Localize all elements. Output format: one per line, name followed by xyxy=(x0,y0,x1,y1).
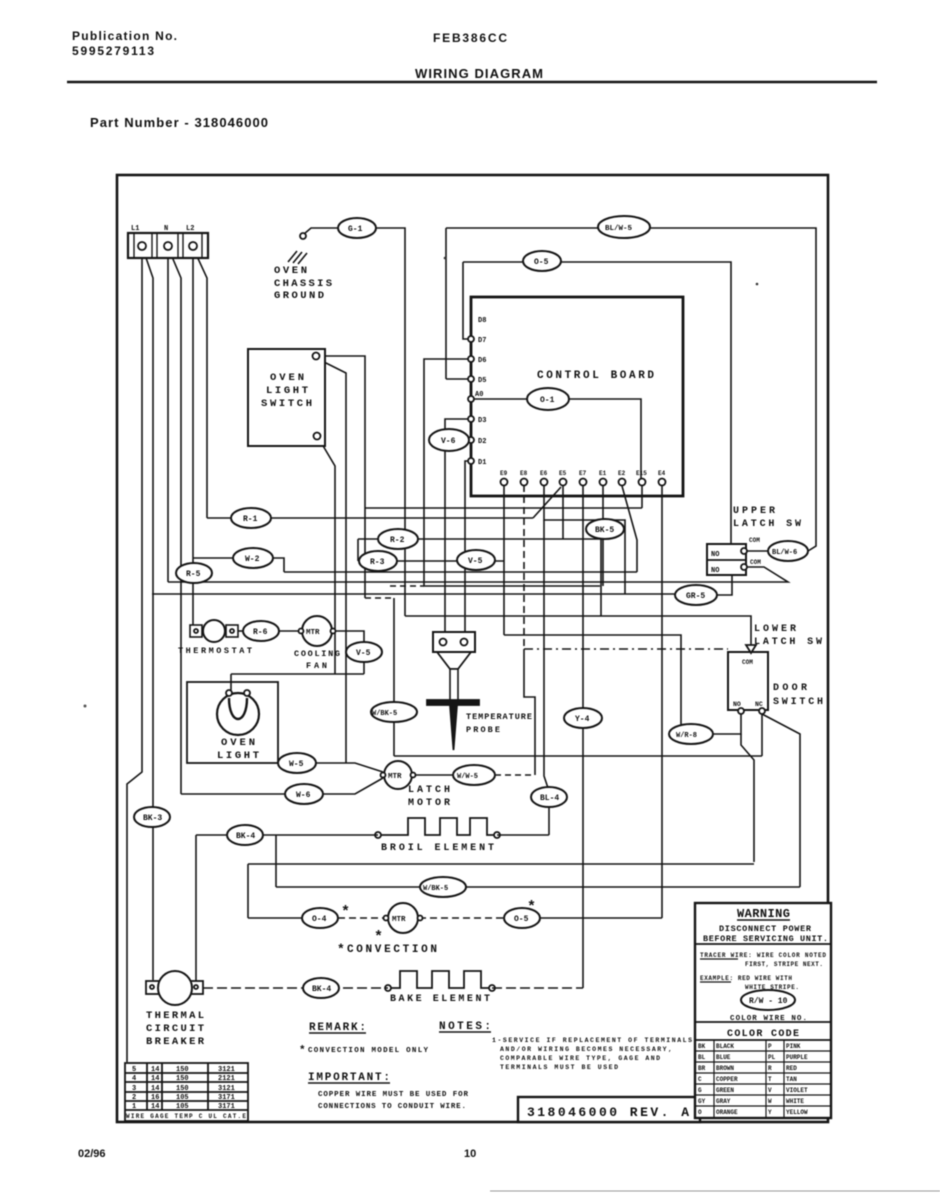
scan speck xyxy=(756,283,759,286)
scan speck xyxy=(84,705,87,708)
wire terminal E4 long vertical to convection O-5 line xyxy=(661,485,663,918)
svg-text:LIGHT: LIGHT xyxy=(266,385,308,397)
svg-text:COM: COM xyxy=(750,559,761,566)
svg-text:DOOR: DOOR xyxy=(773,683,807,694)
wire GR-5 line y=594 xyxy=(152,593,675,595)
svg-text:LATCH: LATCH xyxy=(408,785,450,796)
wire convection line y=918 xyxy=(248,917,302,919)
wire L2b from terminal L2 down to R-1 line xyxy=(195,252,207,518)
wire gauge table text xyxy=(126,1066,246,1120)
connector BL/W-5 xyxy=(598,216,650,238)
svg-text:BL/W-5: BL/W-5 xyxy=(605,225,633,233)
svg-text:E1: E1 xyxy=(599,470,607,477)
svg-text:D1: D1 xyxy=(478,459,486,467)
wire R-3 / V-5 line y=561 xyxy=(358,560,504,562)
svg-text:Publication No.: Publication No. xyxy=(72,29,177,43)
svg-text:NO: NO xyxy=(711,567,719,575)
connector G-1 xyxy=(338,218,376,238)
warning box xyxy=(695,903,831,1118)
svg-text:3: 3 xyxy=(132,1085,136,1093)
svg-text:2121: 2121 xyxy=(218,1075,235,1083)
wire W/R-8 line from x=446 drop to door NO xyxy=(504,635,741,734)
svg-text:BAKE ELEMENT: BAKE ELEMENT xyxy=(390,994,490,1005)
svg-text:G-1: G-1 xyxy=(348,225,363,234)
ground terminal and symbol xyxy=(300,233,306,239)
connector GR-5 xyxy=(675,585,717,605)
wire y=582 long line to upper latch COM2 xyxy=(168,567,788,582)
connector BL/W-6 xyxy=(768,541,808,561)
wire upper latch COM1 to BL/W-6 xyxy=(747,550,769,552)
wire O-5 top line y=262 xyxy=(463,261,523,263)
wire oven light switch top diagonal to x=346 drop xyxy=(318,359,346,763)
svg-text:E6: E6 xyxy=(540,470,548,477)
svg-text:150: 150 xyxy=(176,1066,189,1074)
svg-text:BLACK: BLACK xyxy=(716,1043,734,1050)
svg-text:COM: COM xyxy=(749,537,760,544)
wire y=616 line to door switch COM xyxy=(405,616,751,645)
wire control board D6 to vertical x=424 xyxy=(424,359,600,586)
wire terminal E6 down then right to GR line xyxy=(544,485,625,594)
wire bake element line y=988 xyxy=(203,987,388,989)
wire Nb from terminal N down to W-6 line xyxy=(170,252,181,794)
svg-text:*: * xyxy=(299,1045,306,1057)
wire terminal E5 down to R-2 line and diagonal to R-1 line xyxy=(562,485,564,539)
control board bottom terminals xyxy=(501,479,508,486)
svg-text:R-3: R-3 xyxy=(370,558,385,567)
svg-text:O: O xyxy=(698,1109,702,1116)
wire control board D1 to temperature probe right xyxy=(465,461,468,632)
latch motor xyxy=(384,761,412,789)
wire R-2 line y=539 xyxy=(358,539,601,616)
svg-text:WIRE GAGE TEMP C UL CAT.E: WIRE GAGE TEMP C UL CAT.E xyxy=(126,1113,246,1120)
svg-text:WHITE: WHITE xyxy=(786,1098,804,1105)
svg-text:V-5: V-5 xyxy=(356,649,371,658)
svg-text:COPPER: COPPER xyxy=(716,1076,738,1083)
svg-text:P: P xyxy=(768,1043,772,1050)
oven light switch box xyxy=(248,349,325,446)
svg-text:WARNING: WARNING xyxy=(737,907,790,921)
svg-text:GREEN: GREEN xyxy=(716,1087,734,1094)
svg-text:TEMPERATURE: TEMPERATURE xyxy=(466,712,532,722)
svg-text:105: 105 xyxy=(176,1103,189,1111)
svg-text:1-SERVICE IF REPLACEMENT OF TE: 1-SERVICE IF REPLACEMENT OF TERMINALS xyxy=(492,1037,692,1044)
svg-text:FAN: FAN xyxy=(306,661,327,671)
connector O-1 xyxy=(527,388,569,410)
svg-text:E8: E8 xyxy=(520,470,528,477)
wire y=756 line to BL-4 xyxy=(394,755,762,757)
wire terminal E2 diagonal then down to y=572 line xyxy=(622,486,637,572)
svg-text:BL/W-6: BL/W-6 xyxy=(772,549,797,557)
svg-text:C: C xyxy=(698,1076,702,1083)
svg-text:PURPLE: PURPLE xyxy=(786,1054,808,1061)
upper latch switch box xyxy=(707,544,746,575)
wire W-2 line y=558 xyxy=(193,558,284,572)
svg-text:BROIL ELEMENT: BROIL ELEMENT xyxy=(381,843,494,854)
connector R-2 xyxy=(378,529,418,549)
wire E8 tail down to latch motor right xyxy=(524,649,535,775)
svg-text:V: V xyxy=(768,1087,772,1094)
svg-text:NO: NO xyxy=(733,701,741,708)
wire terminal E7 (Y-4) long vertical to bake line xyxy=(582,485,584,988)
svg-text:E5: E5 xyxy=(559,470,567,477)
control board left terminals xyxy=(468,336,474,342)
svg-text:BK-3: BK-3 xyxy=(143,814,162,823)
wire terminal E9 down to y=616 line xyxy=(503,485,505,635)
scan speck xyxy=(444,257,447,260)
svg-text:L1: L1 xyxy=(131,225,139,233)
svg-text:*: * xyxy=(337,942,345,957)
svg-text:MOTOR: MOTOR xyxy=(408,798,450,809)
svg-text:ORANGE: ORANGE xyxy=(716,1109,738,1116)
svg-text:V-6: V-6 xyxy=(441,437,456,446)
svg-text:14: 14 xyxy=(151,1085,159,1093)
wire BL/W-5 left drop to control board D5 xyxy=(445,228,447,379)
wire W-5 line y=763 from oven light box to latch motor xyxy=(278,763,383,772)
wire control board D3 to V-6 xyxy=(445,419,468,430)
svg-text:THERMOSTAT: THERMOSTAT xyxy=(178,646,252,656)
control board box xyxy=(471,297,683,496)
svg-text:CONTROL BOARD: CONTROL BOARD xyxy=(537,370,654,382)
svg-text:BR: BR xyxy=(698,1065,706,1072)
svg-text:COOLING: COOLING xyxy=(294,649,340,659)
svg-text:BK: BK xyxy=(698,1043,706,1050)
wire O-5 left drop to control board D7 xyxy=(463,262,468,339)
svg-text:NC: NC xyxy=(755,701,763,708)
connector W/BK-5 upper xyxy=(371,702,417,722)
svg-text:MTR: MTR xyxy=(392,916,406,924)
svg-text:V-5: V-5 xyxy=(468,557,483,566)
svg-text:MTR: MTR xyxy=(306,629,320,637)
connector V-6 xyxy=(429,429,469,451)
wire broil element line y=835 xyxy=(196,834,378,836)
svg-text:W/R-8: W/R-8 xyxy=(676,732,697,740)
oven light box xyxy=(187,682,278,763)
svg-text:Part Number - 318046000: Part Number - 318046000 xyxy=(90,115,268,130)
connector W-5 xyxy=(278,753,316,773)
svg-text:CHASSIS: CHASSIS xyxy=(274,278,332,290)
convection motor xyxy=(388,903,418,933)
connector O-4 xyxy=(302,908,338,928)
svg-text:THERMAL: THERMAL xyxy=(146,1010,204,1022)
svg-text:W/BK-5: W/BK-5 xyxy=(372,710,397,718)
svg-text:TAN: TAN xyxy=(786,1076,797,1083)
wire y=508 line from light switch drop to E15 xyxy=(365,507,642,509)
svg-text:MTR: MTR xyxy=(388,773,402,781)
connector BL-4 xyxy=(531,787,567,807)
connector W/R-8 xyxy=(669,724,713,744)
svg-text:GR-5: GR-5 xyxy=(686,592,705,601)
svg-text:D5: D5 xyxy=(478,377,486,385)
svg-text:14: 14 xyxy=(151,1066,159,1074)
svg-text:Y-4: Y-4 xyxy=(575,715,590,724)
svg-text:UPPER: UPPER xyxy=(733,506,775,517)
svg-text:D7: D7 xyxy=(478,337,486,345)
svg-text:W-2: W-2 xyxy=(245,555,260,564)
connector O-5 lower xyxy=(504,908,540,928)
svg-text:R-6: R-6 xyxy=(253,628,268,637)
svg-text:5995279113: 5995279113 xyxy=(72,44,154,58)
wire W-6 line y=794 to latch motor xyxy=(181,778,383,794)
wire V-6 down to temperature probe left xyxy=(444,451,446,632)
svg-text:3121: 3121 xyxy=(218,1066,235,1074)
wire A0 through O-1 oval to terminal E2 xyxy=(474,398,527,400)
color code table grid xyxy=(695,1040,831,1118)
svg-text:CONVECTION: CONVECTION xyxy=(347,944,437,956)
wire door NO down to y=864 line xyxy=(741,734,754,862)
wire BL/W-5 top line y=228 xyxy=(446,227,598,229)
wire thermostat to R-6 to cooling fan xyxy=(237,630,243,632)
wire W/BK-5 line y=887 xyxy=(276,886,800,888)
connector R-6 xyxy=(243,621,279,641)
svg-text:COLOR CODE: COLOR CODE xyxy=(727,1029,799,1040)
temperature probe body xyxy=(437,652,471,669)
svg-text:BL: BL xyxy=(698,1054,706,1061)
svg-text:D3: D3 xyxy=(478,417,486,425)
connector W/BK-5 lower xyxy=(420,877,466,897)
connector Y-4 xyxy=(564,708,602,728)
wire latch motor right to W/W-5 oval xyxy=(415,774,453,776)
svg-text:*: * xyxy=(527,899,536,916)
svg-text:VIOLET: VIOLET xyxy=(786,1087,808,1094)
connector BK-5 xyxy=(586,519,624,539)
svg-text:G: G xyxy=(698,1087,702,1094)
oven light bulb xyxy=(217,693,259,735)
svg-text:14: 14 xyxy=(151,1103,159,1111)
svg-text:E9: E9 xyxy=(500,470,508,477)
diagram border frame xyxy=(117,175,828,1122)
svg-text:*: * xyxy=(341,904,350,921)
connector R-1 xyxy=(231,508,271,528)
thermal circuit breaker xyxy=(146,981,159,994)
svg-text:GY: GY xyxy=(698,1098,706,1105)
svg-text:TRACER WIRE: WIRE COLOR NOTED: TRACER WIRE: WIRE COLOR NOTED xyxy=(700,952,826,959)
svg-text:OVEN: OVEN xyxy=(274,265,307,277)
svg-text:W: W xyxy=(768,1098,772,1105)
wire R-1 line y=518 xyxy=(207,517,533,519)
svg-text:CIRCUIT: CIRCUIT xyxy=(146,1023,204,1035)
svg-text:3171: 3171 xyxy=(218,1103,235,1111)
wire door NC down to W/BK-5 line xyxy=(762,714,800,887)
svg-text:3171: 3171 xyxy=(218,1094,235,1102)
svg-text:PINK: PINK xyxy=(786,1043,801,1050)
svg-text:BL-4: BL-4 xyxy=(540,794,559,803)
thermostat xyxy=(190,625,202,637)
svg-text:BEFORE SERVICING UNIT.: BEFORE SERVICING UNIT. xyxy=(703,934,828,944)
svg-text:COM: COM xyxy=(742,659,753,666)
svg-text:E7: E7 xyxy=(579,470,587,477)
svg-text:10: 10 xyxy=(464,1148,476,1160)
part number box xyxy=(518,1097,700,1122)
wire L2a from terminal L2 down to thermostat xyxy=(192,250,194,625)
wire terminal E1 down through BK-5 to y=586 xyxy=(602,485,604,586)
wire Na from terminal N to long horizontal y=582 xyxy=(167,250,169,582)
svg-text:BROWN: BROWN xyxy=(716,1065,734,1072)
svg-text:105: 105 xyxy=(176,1094,189,1102)
svg-text:R/W - 10: R/W - 10 xyxy=(749,997,788,1006)
wire cooling fan right through V-5 down to oven light line xyxy=(336,631,364,642)
svg-text:LOWER: LOWER xyxy=(754,624,796,635)
svg-text:E2: E2 xyxy=(618,470,626,477)
svg-text:CONVECTION MODEL ONLY: CONVECTION MODEL ONLY xyxy=(308,1047,428,1055)
svg-text:O-1: O-1 xyxy=(540,396,555,405)
svg-text:1: 1 xyxy=(132,1103,136,1111)
svg-text:W/BK-5: W/BK-5 xyxy=(423,885,448,893)
connector V-5 upper xyxy=(457,550,495,570)
svg-text:E15: E15 xyxy=(636,470,647,477)
svg-text:5: 5 xyxy=(132,1066,136,1074)
svg-text:D2: D2 xyxy=(478,438,486,446)
svg-text:WIRING DIAGRAM: WIRING DIAGRAM xyxy=(415,66,543,81)
svg-text:AND/OR WIRING BECOMES NECESSAR: AND/OR WIRING BECOMES NECESSARY, xyxy=(500,1046,672,1053)
svg-text:O-4: O-4 xyxy=(312,915,327,924)
svg-text:A0: A0 xyxy=(475,391,483,399)
svg-text:150: 150 xyxy=(176,1085,189,1093)
svg-text:COPPER WIRE MUST BE USED FOR: COPPER WIRE MUST BE USED FOR xyxy=(318,1091,468,1099)
svg-text:COLOR WIRE NO.: COLOR WIRE NO. xyxy=(730,1015,807,1023)
wire terminal E8 down (dash) to R-3 line xyxy=(523,485,525,649)
svg-text:L2: L2 xyxy=(186,225,194,233)
connector BK-3 xyxy=(134,807,170,827)
svg-text:PROBE: PROBE xyxy=(466,725,500,735)
svg-text:EXAMPLE: RED WIRE WITH: EXAMPLE: RED WIRE WITH xyxy=(700,975,792,982)
svg-text:O-5: O-5 xyxy=(534,258,549,267)
wire terminal E15 up-stub xyxy=(641,485,643,508)
svg-text:02/96: 02/96 xyxy=(78,1148,106,1160)
svg-text:R-1: R-1 xyxy=(243,515,258,524)
warning tracer oval R/W - 10 xyxy=(741,990,795,1010)
connector O-5 xyxy=(523,251,561,271)
svg-text:LATCH SW: LATCH SW xyxy=(754,637,822,648)
svg-text:BREAKER: BREAKER xyxy=(146,1036,205,1048)
svg-text:BLUE: BLUE xyxy=(716,1054,731,1061)
svg-text:D8: D8 xyxy=(478,317,486,325)
svg-text:16: 16 xyxy=(151,1094,159,1102)
connector BK-4 bake xyxy=(303,978,339,998)
temperature probe connector xyxy=(433,632,475,652)
connector W/W-5 xyxy=(453,765,495,785)
svg-text:W-6: W-6 xyxy=(296,791,311,800)
svg-text:FEB386CC: FEB386CC xyxy=(433,31,507,45)
svg-text:GRAY: GRAY xyxy=(716,1098,731,1105)
svg-text:CONNECTIONS TO CONDUIT WIRE.: CONNECTIONS TO CONDUIT WIRE. xyxy=(318,1103,466,1111)
svg-text:LATCH SW: LATCH SW xyxy=(733,519,801,530)
wire oven light switch bottom to oven light line xyxy=(319,439,335,674)
svg-text:3121: 3121 xyxy=(218,1085,235,1093)
svg-text:PL: PL xyxy=(768,1054,776,1061)
svg-text:W-5: W-5 xyxy=(289,760,304,769)
svg-text:4: 4 xyxy=(132,1075,136,1083)
svg-text:BK-4: BK-4 xyxy=(312,985,331,994)
svg-text:GROUND: GROUND xyxy=(274,290,324,302)
wire E6 continuation down to BL-4 xyxy=(544,520,548,788)
svg-text:BK-5: BK-5 xyxy=(595,526,614,535)
svg-text:E4: E4 xyxy=(658,470,666,477)
color code rows xyxy=(698,1043,808,1116)
svg-text:NO: NO xyxy=(711,551,719,559)
bake element xyxy=(385,971,495,991)
svg-text:BK-4: BK-4 xyxy=(236,832,255,841)
connector W-2 xyxy=(233,548,273,568)
svg-text:RED: RED xyxy=(786,1065,797,1072)
svg-text:2: 2 xyxy=(132,1094,136,1102)
wire ground to G-1 to vertical x=405 xyxy=(304,228,338,234)
svg-text:OVEN: OVEN xyxy=(221,737,255,749)
broil element xyxy=(375,818,500,838)
svg-text:W/W-5: W/W-5 xyxy=(457,773,478,781)
svg-text:WHITE STRIPE.: WHITE STRIPE. xyxy=(745,984,799,991)
svg-text:R: R xyxy=(768,1065,772,1072)
wire dash line y=649 to door switch xyxy=(524,648,728,650)
wire L1a from terminal L1 down left side xyxy=(127,250,142,1062)
svg-text:R-2: R-2 xyxy=(390,536,405,545)
svg-text:YELLOW: YELLOW xyxy=(786,1109,808,1116)
connector W-6 xyxy=(285,784,323,804)
connector R-5 xyxy=(176,563,212,583)
svg-text:FIRST, STRIPE NEXT.: FIRST, STRIPE NEXT. xyxy=(745,961,823,968)
wire y=864 line xyxy=(248,863,754,865)
svg-text:T: T xyxy=(768,1076,772,1083)
svg-text:14: 14 xyxy=(151,1075,159,1083)
wire gauge table bottom left xyxy=(125,1063,248,1121)
cooling fan motor xyxy=(302,616,332,646)
connector BK-4 broil xyxy=(227,825,263,845)
svg-text:Y: Y xyxy=(768,1109,772,1116)
svg-text:N: N xyxy=(164,225,168,233)
svg-text:D6: D6 xyxy=(478,357,486,365)
door switch box xyxy=(728,652,768,710)
svg-text:DISCONNECT POWER: DISCONNECT POWER xyxy=(719,924,812,934)
terminal block L1 N L2 xyxy=(128,233,208,258)
svg-text:R-5: R-5 xyxy=(186,570,201,579)
wire y=674 oven light feed line xyxy=(231,673,364,675)
wire oven light switch top to x=365 drop xyxy=(319,356,365,598)
svg-text:O-5: O-5 xyxy=(514,915,529,924)
connector V-5 lower xyxy=(346,642,382,662)
connector R-3 xyxy=(359,551,397,571)
wire y=572 line xyxy=(284,571,637,573)
svg-text:LIGHT: LIGHT xyxy=(217,750,259,762)
svg-text:TERMINALS MUST BE USED: TERMINALS MUST BE USED xyxy=(500,1064,618,1071)
svg-text:SWITCH: SWITCH xyxy=(773,697,823,708)
wire L1b from terminal L1 to BK-3 / thermal breaker xyxy=(144,252,153,980)
svg-text:150: 150 xyxy=(176,1075,189,1083)
svg-text:COMPARABLE WIRE TYPE, GAGE AND: COMPARABLE WIRE TYPE, GAGE AND xyxy=(500,1055,660,1062)
